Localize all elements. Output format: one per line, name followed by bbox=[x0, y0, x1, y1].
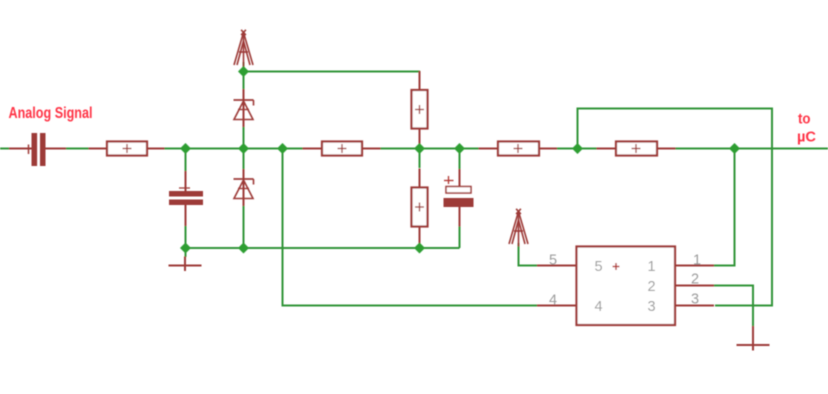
wire R3 bottom stub bbox=[419, 226, 421, 245]
wire R1 right stub bbox=[146, 148, 165, 150]
wire main to C3 bbox=[459, 149, 461, 171]
op-amp U1 body bbox=[577, 247, 676, 326]
node main-pin4 bbox=[277, 143, 288, 154]
node main-C3 bbox=[454, 143, 465, 154]
wire R1 to Rmid (through junctions) bbox=[163, 148, 304, 150]
ground GND2 bbox=[737, 336, 770, 351]
wire VCC2 to pin5 bbox=[519, 243, 540, 266]
wire bottom rail bbox=[186, 247, 460, 249]
supply VCC2 arrow bbox=[509, 209, 528, 247]
junction diamonds bbox=[180, 66, 740, 254]
node main-loop bbox=[572, 143, 583, 154]
svg-text:5: 5 bbox=[549, 253, 557, 269]
resistor R1 bbox=[107, 142, 147, 156]
diode D2 (zener to rail) bbox=[234, 179, 254, 199]
resistor R6 bbox=[616, 142, 657, 156]
wire R4 right stub bbox=[538, 148, 557, 150]
wire R4 left stub bbox=[479, 148, 499, 150]
wire C2 to bottom rail bbox=[185, 225, 187, 248]
capacitor C1 polarity tick bbox=[28, 145, 30, 155]
wire R2 bottom stub bbox=[419, 128, 421, 145]
wire C1 right lead bbox=[45, 148, 66, 150]
capacitor C3 plate top (hollow) bbox=[446, 187, 471, 194]
wire R3 top stub bbox=[419, 169, 421, 189]
wire pin2 stub bbox=[675, 285, 714, 287]
diode D1 (zener to VCC) bbox=[234, 100, 254, 120]
wire C3 to bottom rail bbox=[459, 225, 461, 248]
wire C2 bottom lead bbox=[185, 204, 187, 226]
node main-R2R3 bbox=[414, 143, 425, 154]
wire gnd2 lead bbox=[752, 326, 754, 345]
wire Rmid to R4 bbox=[379, 148, 480, 150]
svg-text:4: 4 bbox=[595, 299, 603, 315]
wire D2 lead bbox=[243, 169, 245, 206]
wire Rmid right stub bbox=[361, 148, 381, 150]
capacitor C2 polarity tick bbox=[179, 187, 190, 189]
wire pin2 to gnd2 bbox=[714, 286, 753, 328]
node rail-C2 bbox=[180, 243, 191, 254]
wire pin5 stub bbox=[537, 265, 577, 267]
capacitor C3 polarity + bbox=[444, 176, 454, 184]
resistor R4 (lower vertical) bbox=[412, 188, 428, 227]
svg-text:1: 1 bbox=[648, 259, 656, 275]
wire main to D2 bbox=[243, 149, 245, 171]
resistor R3 (upper vertical) bbox=[412, 90, 428, 129]
svg-text:3: 3 bbox=[648, 299, 656, 315]
svg-text:µC: µC bbox=[797, 130, 817, 146]
svg-text:Analog Signal: Analog Signal bbox=[9, 105, 93, 122]
wire R5 to right edge (to µC) bbox=[674, 148, 828, 150]
wire Rmid left stub bbox=[303, 148, 323, 150]
svg-text:5: 5 bbox=[595, 259, 603, 275]
wire pin4 stub bbox=[537, 305, 577, 307]
supply VCC1 arrow bbox=[234, 30, 253, 68]
wire C1 left lead bbox=[9, 148, 32, 150]
wire C3 top lead bbox=[459, 169, 461, 187]
resistor R2 (mid horizontal) bbox=[322, 142, 362, 156]
wire D1 anode to main bbox=[243, 126, 245, 149]
wire R4 to R5 bbox=[556, 148, 599, 150]
capacitor C1 plate right bbox=[40, 133, 46, 166]
wire C3 bottom lead bbox=[459, 207, 461, 227]
svg-text:2: 2 bbox=[648, 279, 656, 295]
node main-pin1 bbox=[729, 143, 740, 154]
node vcc-top bbox=[238, 66, 249, 77]
wire main net left entry bbox=[0, 148, 11, 150]
node rail-R4 bbox=[414, 243, 425, 254]
capacitor C2 plate bottom bbox=[169, 200, 203, 206]
wire bottom rail to gnd1 bbox=[185, 248, 187, 257]
wire pin1 to main junction bbox=[714, 149, 735, 266]
node main-C2 bbox=[180, 143, 191, 154]
wire feedback loop junction to pin3 bbox=[578, 109, 773, 306]
wire VCC1 stem down through D1 region bbox=[243, 62, 245, 91]
capacitor C3 plate bottom bbox=[444, 198, 474, 207]
wire D2 anode to bottom rail bbox=[243, 205, 245, 248]
svg-text:1: 1 bbox=[693, 253, 701, 269]
wire R3 top lead bbox=[419, 149, 421, 169]
wire pin3 stub bbox=[675, 305, 714, 307]
wire R2 top stub bbox=[419, 71, 421, 91]
svg-text:to: to bbox=[798, 112, 811, 128]
wire R5 left stub bbox=[597, 148, 617, 150]
resistor R5 bbox=[498, 142, 539, 156]
ground GND1 bbox=[169, 257, 202, 272]
wire R1 left stub bbox=[89, 148, 108, 150]
node main-D column bbox=[238, 143, 249, 154]
svg-text:3: 3 bbox=[691, 292, 699, 308]
capacitor C1 plate left bbox=[32, 133, 38, 166]
capacitor C2 plate top bbox=[169, 191, 203, 197]
wire D1 lead bbox=[243, 89, 245, 127]
node rail-D2 bbox=[238, 243, 249, 254]
svg-text:2: 2 bbox=[691, 272, 699, 288]
wire top branch to R2 bbox=[244, 71, 421, 73]
wire pin1 stub bbox=[675, 265, 714, 267]
svg-text:4: 4 bbox=[549, 293, 557, 309]
wire C2 top lead bbox=[185, 171, 187, 192]
wire R5 right stub bbox=[656, 148, 676, 150]
op-amp U1 plus mark bbox=[613, 263, 620, 270]
wire main to pin4 bbox=[283, 149, 540, 306]
pin labels bbox=[549, 253, 701, 316]
wire C1 to R1 bbox=[64, 148, 90, 150]
wire main to C2 bbox=[185, 149, 187, 174]
